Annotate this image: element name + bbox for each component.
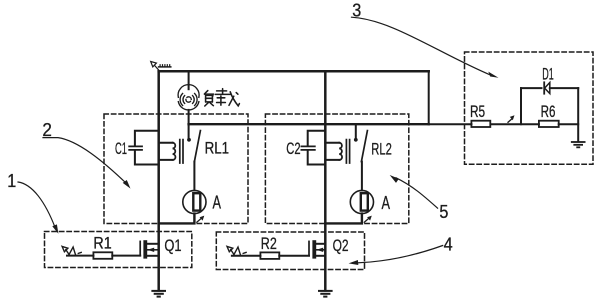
MOSFET Q2 body arrow lead [316, 249, 325, 251]
svg-text:5: 5 [439, 202, 448, 222]
MOSFET Q2 source lead [316, 255, 325, 257]
MOSFET Q2 gate bar [308, 241, 310, 255]
diode D1 cathode bar [543, 82, 545, 93]
wire blade to ammeter A1 [193, 162, 195, 191]
diode D1 triangle [545, 83, 550, 94]
MOSFET Q1 drain lead [147, 243, 159, 245]
svg-text:D1: D1 [542, 66, 554, 84]
wire R6 right [559, 123, 579, 125]
wire R5 to junction [491, 123, 539, 125]
ground G1 [152, 291, 165, 297]
wire branch 2 vertical [324, 71, 327, 290]
region 3 junction vertical [520, 88, 522, 124]
svg-text:C2: C2 [286, 140, 300, 158]
ammeter A1 circle [183, 190, 206, 213]
trigger input symbol branch 1 [62, 246, 81, 254]
capacitor C2 [301, 146, 314, 150]
pointer arrow region 3 [508, 115, 515, 122]
label 负载 (load) drawn strokes [204, 89, 239, 106]
wire load branch top [188, 71, 190, 89]
supply arrow symbol [151, 62, 171, 70]
wire blade to ammeter A2 [361, 162, 363, 191]
svg-text:C1: C1 [115, 140, 127, 158]
pointer arrow at A1 return [197, 216, 205, 223]
ground G3 [572, 142, 585, 147]
svg-text:4: 4 [444, 235, 453, 255]
wire region 3 top left [521, 87, 542, 89]
dashed box region 4 [216, 232, 364, 270]
wire trigger to R1 [67, 255, 93, 257]
relay core bars RL1 [180, 140, 183, 163]
capacitor C2 loop wires [308, 131, 326, 165]
resistor R5 [471, 121, 490, 127]
svg-text:R6: R6 [541, 103, 556, 121]
dashed box region 5 [265, 114, 408, 224]
svg-text:Q2: Q2 [333, 237, 349, 255]
trigger input symbol branch 2 [227, 246, 246, 254]
pointer arrow at A2 return [364, 216, 372, 223]
MOSFET Q1 body arrow lead [147, 249, 159, 251]
wire top supply rail [159, 70, 429, 73]
relay contact RL2 stub [355, 124, 357, 138]
MOSFET Q2 channel bar [312, 240, 316, 258]
ammeter A2 circle [350, 190, 373, 213]
wire load bottom to main line [188, 110, 190, 124]
wire R1 to Q1 gate [112, 255, 140, 257]
resistor R2 [260, 252, 279, 259]
svg-text:1: 1 [7, 171, 16, 191]
relay contact RL1 fixed dot [187, 138, 191, 142]
relay contact RL1 stub [188, 124, 190, 138]
svg-text:R5: R5 [470, 103, 485, 121]
wire branch 1 vertical [157, 71, 160, 290]
MOSFET Q1 channel bar [143, 240, 147, 258]
wire R2 to Q2 gate [279, 255, 309, 257]
relay coil RL1 [159, 143, 173, 160]
relay contact RL2 fixed dot [354, 138, 358, 142]
ammeter A1 element [193, 193, 200, 210]
svg-text:Q1: Q1 [164, 237, 181, 255]
svg-text:R2: R2 [261, 235, 277, 253]
MOSFET Q1 source lead [147, 255, 159, 257]
wire main output line [189, 123, 429, 125]
MOSFET Q2 drain lead [316, 243, 325, 245]
wire ammeter A1 return [159, 214, 195, 224]
relay coil RL2 [325, 143, 339, 160]
load symbol (sounder) [178, 85, 199, 110]
svg-text:R1: R1 [93, 234, 111, 252]
wire trigger to R2 [232, 255, 261, 257]
dashed box region 1 [45, 232, 192, 268]
dashed box region 3 [465, 52, 594, 164]
capacitor C1 [129, 146, 142, 150]
ground G2 [319, 291, 332, 297]
relay core bars RL2 [346, 140, 349, 163]
resistor R1 [93, 252, 112, 258]
capacitor C1 loop wires [135, 131, 159, 165]
svg-text:RL1: RL1 [205, 140, 230, 158]
resistor R6 [539, 121, 559, 127]
svg-text:A: A [213, 193, 222, 213]
wire region 3 top right [550, 87, 578, 89]
svg-text:RL2: RL2 [371, 141, 392, 159]
dashed box region 2 [104, 114, 248, 224]
ammeter A2 element [361, 193, 368, 210]
MOSFET Q1 gate bar [139, 241, 141, 255]
wire region 3 right vertical [577, 88, 579, 141]
wire main line into region 3 [429, 123, 472, 125]
svg-text:A: A [382, 193, 391, 213]
wire rail drop right [428, 71, 430, 124]
relay contact RL1 blade [194, 131, 200, 162]
relay contact RL2 blade [361, 131, 367, 162]
wire ammeter A2 return [325, 214, 362, 224]
